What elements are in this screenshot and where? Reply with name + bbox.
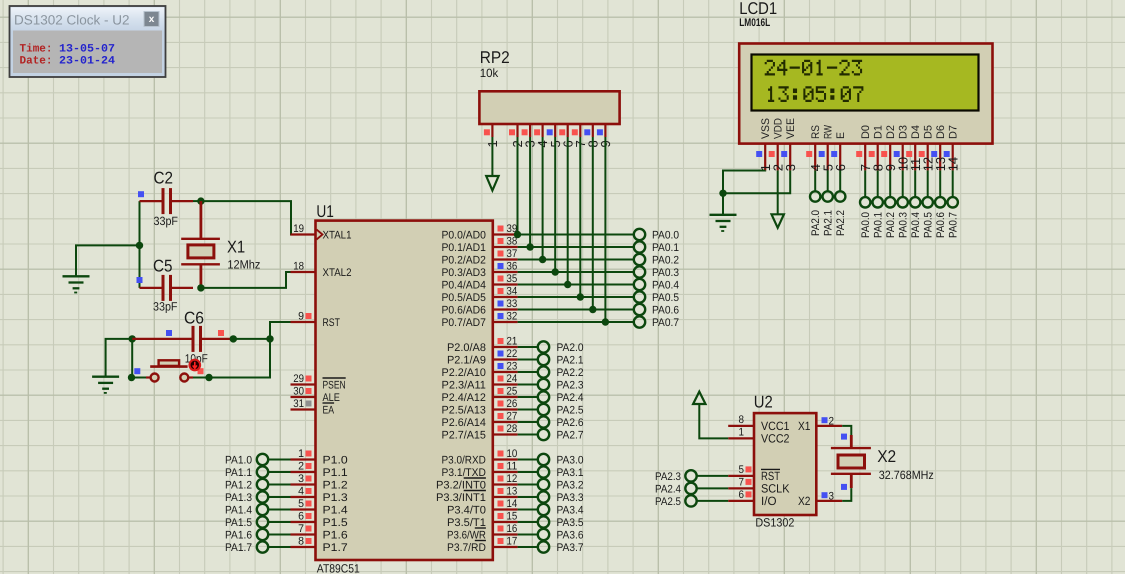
svg-text:P3.5/T1: P3.5/T1 <box>447 517 486 529</box>
svg-text:P3.4/T0: P3.4/T0 <box>447 504 486 516</box>
LCD1 pin 6 E <box>831 132 848 171</box>
svg-text:ALE: ALE <box>323 392 340 404</box>
U1 pin 31 EA <box>291 398 335 416</box>
svg-text:X1: X1 <box>798 419 811 433</box>
RP2 pin 4 <box>534 124 550 148</box>
svg-text:PA2.3: PA2.3 <box>655 471 681 483</box>
svg-text:17: 17 <box>507 536 518 548</box>
terminal PA0.4 <box>518 279 679 292</box>
U1 pin 24 P2.3/A11 <box>442 373 518 391</box>
svg-text:25: 25 <box>507 386 518 398</box>
svg-text:D4: D4 <box>910 125 922 139</box>
terminal PA0.4 (LCD data D4) <box>910 170 922 238</box>
U2 pin 6 I/O <box>728 489 776 508</box>
terminal PA3.3 <box>518 491 584 504</box>
svg-text:P1.0: P1.0 <box>323 454 348 466</box>
terminal PA2.5 <box>518 404 584 417</box>
IC U1 AT89C51 body <box>316 202 493 574</box>
terminal PA0.0 <box>518 229 679 242</box>
RP2 pin 5 <box>547 124 563 148</box>
svg-text:DS1302 Clock - U2: DS1302 Clock - U2 <box>14 13 130 28</box>
terminal PA2.2 (LCD control) <box>835 170 847 236</box>
svg-text:P2.5/A13: P2.5/A13 <box>442 404 486 416</box>
svg-text:VDD: VDD <box>773 118 785 139</box>
svg-text:PA2.2: PA2.2 <box>835 210 847 236</box>
svg-text:D3: D3 <box>898 125 910 139</box>
wire C6 right to RST node <box>230 335 274 342</box>
svg-text:P2.1/A9: P2.1/A9 <box>447 354 486 366</box>
svg-text:x: x <box>149 14 155 25</box>
svg-text:21: 21 <box>507 336 518 348</box>
svg-text:XTAL1: XTAL1 <box>323 229 352 241</box>
power terminal (down arrow) at LCD VDD <box>772 214 784 228</box>
svg-text:PA0.5: PA0.5 <box>923 212 935 238</box>
svg-text:PA0.6: PA0.6 <box>652 305 679 317</box>
terminal PA2.0 (LCD control) <box>810 170 822 236</box>
U1 pin 9 RST <box>291 311 341 329</box>
terminal PA1.4 <box>225 504 291 517</box>
svg-text:9: 9 <box>298 311 304 323</box>
LCD screen showing 24-01-23 / 13:05:07 <box>752 55 979 111</box>
terminal PA1.2 <box>225 479 291 492</box>
U1 pin 19 XTAL1 <box>291 223 352 241</box>
svg-text:P2.0/A8: P2.0/A8 <box>447 342 486 354</box>
terminal PA1.1 <box>225 466 291 479</box>
svg-text:P0.7/AD7: P0.7/AD7 <box>442 317 486 329</box>
wire left rail C2 to C5 <box>136 201 143 288</box>
ground (button row) <box>92 377 119 393</box>
terminal PA2.3 <box>655 470 728 483</box>
wire RP2 pin 6 to P0.4 net <box>564 137 571 288</box>
U1 pin 7 P1.6 <box>291 523 348 541</box>
U1 pin 23 P2.2/A10 <box>442 361 518 379</box>
svg-text:D2: D2 <box>885 125 897 139</box>
terminal PA2.3 <box>518 379 584 392</box>
svg-text:D7: D7 <box>948 125 960 139</box>
wire RP2 pin 7 to P0.5 net <box>577 137 584 301</box>
svg-text:2: 2 <box>298 461 304 473</box>
svg-text:P1.1: P1.1 <box>323 467 348 479</box>
svg-text:RS: RS <box>810 125 822 139</box>
svg-text:P2.3/A11: P2.3/A11 <box>442 379 486 391</box>
U2 pin 7 SCLK <box>728 476 789 495</box>
terminal PA2.4 <box>518 391 584 404</box>
svg-text:14: 14 <box>945 157 960 171</box>
U1 pin 17 P3.7/RD <box>447 536 518 554</box>
svg-text:PA0.7: PA0.7 <box>948 212 960 238</box>
svg-text:12: 12 <box>507 473 518 485</box>
terminal PA0.1 <box>518 241 679 254</box>
terminal PA2.7 <box>518 429 584 442</box>
U1 pin 8 P1.7 <box>291 536 348 554</box>
U1 pin 29 PSEN <box>291 373 346 391</box>
svg-text:P3.2/INT0: P3.2/INT0 <box>436 479 486 491</box>
svg-text:PA3.7: PA3.7 <box>557 542 584 554</box>
svg-text:PA3.3: PA3.3 <box>557 492 584 504</box>
wire RP2 pin 3 to P0.1 net <box>526 137 533 251</box>
svg-text:PA0.1: PA0.1 <box>873 212 885 238</box>
svg-text:P1.5: P1.5 <box>323 517 348 529</box>
svg-text:PA0.4: PA0.4 <box>652 280 679 292</box>
svg-text:P1.7: P1.7 <box>323 542 348 554</box>
wire RST node to pin 9 <box>270 322 316 339</box>
LCD1 pin 4 RS <box>806 125 823 171</box>
LCD1 pin 9 D2 <box>881 125 898 171</box>
svg-text:PA2.4: PA2.4 <box>557 392 584 404</box>
svg-text:C5: C5 <box>153 256 173 275</box>
LCD1 pin 1 VSS <box>756 118 773 171</box>
LCD1 pin 8 D1 <box>869 125 886 171</box>
terminal PA3.1 <box>518 466 584 479</box>
wire C2 to XTAL1 pin 19 <box>193 197 316 234</box>
svg-text:37: 37 <box>507 248 518 260</box>
svg-text:X2: X2 <box>877 447 896 466</box>
svg-text:PA2.3: PA2.3 <box>557 380 584 392</box>
svg-text:11: 11 <box>507 461 518 473</box>
U1 pin 6 P1.5 <box>291 511 348 529</box>
svg-text:6: 6 <box>298 511 304 523</box>
svg-text:33: 33 <box>507 298 518 310</box>
svg-text:Time:: Time: <box>20 43 53 56</box>
push button (reset) <box>134 360 203 382</box>
terminal PA0.6 (LCD data D6) <box>935 170 947 238</box>
svg-text:P2.7/A15: P2.7/A15 <box>442 429 486 441</box>
LCD1 pin 11 D4 <box>906 125 923 171</box>
svg-text:P2.2/A10: P2.2/A10 <box>442 367 486 379</box>
svg-text:6: 6 <box>833 164 848 171</box>
svg-text:P2.6/A14: P2.6/A14 <box>442 417 486 429</box>
svg-text:15: 15 <box>507 511 518 523</box>
svg-text:PA3.1: PA3.1 <box>557 467 584 479</box>
svg-text:LCD1: LCD1 <box>739 0 777 18</box>
LCD1 pin 3 VEE <box>781 118 798 171</box>
RP2 pin 2 <box>509 124 525 148</box>
U1 pin 15 P3.5/T1 <box>447 511 518 529</box>
svg-text:P0.4/AD4: P0.4/AD4 <box>442 279 486 291</box>
svg-text:5: 5 <box>739 464 745 476</box>
terminal PA2.5 <box>655 495 728 508</box>
svg-text:P0.0/AD0: P0.0/AD0 <box>442 229 486 241</box>
terminal PA3.5 <box>518 516 584 529</box>
U1 pin 28 P2.7/A15 <box>442 423 518 441</box>
svg-text:10: 10 <box>507 448 518 460</box>
svg-text:16: 16 <box>507 523 518 535</box>
wire RST node down to button right <box>193 339 270 381</box>
svg-text:P1.2: P1.2 <box>323 479 348 491</box>
U1 pin 33 P0.6/AD6 <box>442 298 518 316</box>
svg-text:P0.1/AD1: P0.1/AD1 <box>442 242 486 254</box>
terminal PA0.2 <box>518 254 679 267</box>
svg-text:2: 2 <box>829 415 835 427</box>
svg-text:13-05-07: 13-05-07 <box>59 44 115 56</box>
power terminal (up arrow) at U2 <box>693 392 705 404</box>
svg-text:C2: C2 <box>154 169 174 188</box>
svg-text:PA2.1: PA2.1 <box>557 355 584 367</box>
svg-text:35: 35 <box>507 273 518 285</box>
terminal PA0.5 (LCD data D5) <box>923 170 935 238</box>
LCD1 pin 10 D3 <box>894 125 911 171</box>
svg-text:P0.5/AD5: P0.5/AD5 <box>442 292 486 304</box>
RP2 pin 3 <box>522 124 538 148</box>
U2 pin 3 X2 <box>798 490 842 508</box>
svg-text:D5: D5 <box>923 125 935 139</box>
U1 pin 5 P1.4 <box>291 498 348 516</box>
svg-text:DS1302: DS1302 <box>755 515 794 529</box>
wire C6 row to ground riser <box>106 335 136 377</box>
U1 pin 3 P1.2 <box>291 473 348 491</box>
svg-text:13: 13 <box>507 486 518 498</box>
U2 pin 1 VCC2 <box>728 426 790 445</box>
svg-text:18: 18 <box>293 261 304 273</box>
svg-text:VSS: VSS <box>760 118 772 139</box>
U1 pin 30 ALE <box>291 386 340 404</box>
svg-text:P2.4/A12: P2.4/A12 <box>442 392 486 404</box>
terminal PA0.1 (LCD data D1) <box>873 170 885 238</box>
wire U2 X1 to crystal X2 <box>842 426 851 435</box>
terminal PA0.5 <box>518 291 679 304</box>
svg-text:D6: D6 <box>935 125 947 139</box>
terminal PA3.4 <box>518 504 584 517</box>
svg-text:32: 32 <box>507 311 518 323</box>
simulation popup window "DS1302 Clock - U2" <box>10 6 166 77</box>
svg-text:26: 26 <box>507 398 518 410</box>
crystal X2 32.768MHz <box>831 434 934 490</box>
RP2 pin 6 <box>559 124 575 148</box>
svg-text:14: 14 <box>507 498 518 510</box>
svg-text:Date:: Date: <box>20 56 53 68</box>
svg-text:P3.6/WR: P3.6/WR <box>447 529 486 541</box>
RP2 pin 7 <box>572 124 588 148</box>
U1 pin 27 P2.6/A14 <box>442 411 518 429</box>
svg-text:VCC2: VCC2 <box>761 431 790 445</box>
svg-text:P1.4: P1.4 <box>323 504 348 516</box>
svg-text:8: 8 <box>739 414 745 426</box>
wire RP2 pin 2 to P0.0 net <box>514 137 521 238</box>
svg-text:PA0.7: PA0.7 <box>652 317 679 329</box>
terminal PA0.7 <box>518 316 679 329</box>
U1 pin 11 P3.1/TXD <box>442 461 518 479</box>
wire RP2 pin 5 to P0.3 net <box>552 137 559 276</box>
LCD1 pin 13 D6 <box>931 125 948 171</box>
U1 pin 38 P0.1/AD1 <box>442 236 518 254</box>
svg-text:6: 6 <box>739 489 745 501</box>
svg-text:RST: RST <box>323 317 341 329</box>
svg-text:P3.7/RD: P3.7/RD <box>447 542 486 554</box>
wire RP2 pin 1 to terminal <box>491 137 493 176</box>
RP2 pin 8 <box>584 124 600 148</box>
svg-text:36: 36 <box>507 261 518 273</box>
svg-text:4: 4 <box>298 486 304 498</box>
U2 pin 5 RST <box>728 464 780 483</box>
terminal PA1.6 <box>225 529 291 542</box>
svg-text:7: 7 <box>298 523 304 535</box>
U1 pin 13 P3.3/INT1 <box>436 486 518 504</box>
terminal PA3.2 <box>518 479 584 492</box>
svg-text:P3.3/INT1: P3.3/INT1 <box>436 492 486 504</box>
svg-text:22: 22 <box>507 348 518 360</box>
svg-text:PA2.7: PA2.7 <box>557 430 584 442</box>
svg-text:PA0.6: PA0.6 <box>935 212 947 238</box>
terminal PA2.1 (LCD control) <box>823 170 835 236</box>
svg-text:3: 3 <box>298 473 304 485</box>
LCD1 pin 2 VDD <box>769 118 786 171</box>
RP2 pin 1 <box>484 124 500 148</box>
LCD1 pin 12 D5 <box>919 125 936 171</box>
svg-text:P1.6: P1.6 <box>323 529 348 541</box>
U2 pin 2 X1 <box>798 415 842 433</box>
svg-text:P0.3/AD3: P0.3/AD3 <box>442 267 486 279</box>
wire C5 to XTAL2 pin 18 <box>197 272 315 292</box>
LCD1 pin 14 D7 <box>944 125 961 171</box>
power terminal (down arrow) at RP2 pin 1 <box>486 176 498 191</box>
terminal PA0.7 (LCD data D7) <box>948 170 960 238</box>
terminal PA3.7 <box>518 541 584 554</box>
svg-text:PA0.4: PA0.4 <box>910 212 922 238</box>
terminal PA0.6 <box>518 304 679 317</box>
svg-text:10k: 10k <box>480 66 499 80</box>
wire junction down to button left <box>128 339 146 381</box>
svg-text:PSEN: PSEN <box>323 379 346 391</box>
svg-text:U2: U2 <box>754 393 773 412</box>
svg-text:23-01-24: 23-01-24 <box>59 56 115 68</box>
svg-text:23: 23 <box>507 361 518 373</box>
svg-text:EA: EA <box>323 404 335 416</box>
terminal PA1.3 <box>225 491 291 504</box>
U1 pin 39 P0.0/AD0 <box>442 223 518 241</box>
svg-text:X1: X1 <box>227 238 245 257</box>
svg-text:30: 30 <box>293 386 304 398</box>
svg-text:PA2.0: PA2.0 <box>557 342 584 354</box>
U1 pin 21 P2.0/A8 <box>447 336 518 354</box>
svg-text:PA1.6: PA1.6 <box>225 530 252 542</box>
svg-text:PA3.5: PA3.5 <box>557 517 584 529</box>
U1 pin 4 P1.3 <box>291 486 348 504</box>
svg-text:PA0.2: PA0.2 <box>885 212 897 238</box>
wire RP2 pin 4 to P0.2 net <box>539 137 546 263</box>
svg-text:PA1.1: PA1.1 <box>225 467 252 479</box>
wire RP2 pin 9 to P0.7 net <box>602 137 609 326</box>
wire LCD VSS to ground <box>719 170 765 214</box>
svg-text:P1.3: P1.3 <box>323 492 348 504</box>
svg-text:PA0.3: PA0.3 <box>898 212 910 238</box>
terminal PA2.6 <box>518 416 584 429</box>
terminal PA2.2 <box>518 366 584 379</box>
U1 pin 25 P2.4/A12 <box>442 386 518 404</box>
svg-text:X2: X2 <box>798 494 811 508</box>
LCD LCD1 LM016L body <box>739 0 992 144</box>
svg-text:33pF: 33pF <box>154 214 179 228</box>
terminal PA1.5 <box>225 516 291 529</box>
svg-text:PA0.0: PA0.0 <box>860 212 872 238</box>
terminal PA0.2 (LCD data D2) <box>885 170 897 238</box>
svg-text:AT89C51: AT89C51 <box>317 561 360 574</box>
svg-text:PA1.7: PA1.7 <box>225 542 252 554</box>
svg-text:1: 1 <box>298 448 304 460</box>
svg-text:27: 27 <box>507 411 518 423</box>
U1 pin 16 P3.6/WR <box>447 523 518 541</box>
svg-text:PA0.3: PA0.3 <box>652 267 679 279</box>
svg-text:U1: U1 <box>316 202 334 221</box>
U1 pin 18 XTAL2 <box>291 261 352 279</box>
svg-text:PA3.2: PA3.2 <box>557 480 584 492</box>
svg-text:PA3.4: PA3.4 <box>557 505 584 517</box>
capacitor C2 33pF <box>138 169 193 228</box>
svg-text:PA2.5: PA2.5 <box>655 496 681 508</box>
terminal PA0.3 <box>518 266 679 279</box>
terminal PA1.7 <box>225 541 291 554</box>
svg-text:3: 3 <box>829 490 835 502</box>
terminal PA2.0 <box>518 341 584 354</box>
svg-text:P0.2/AD2: P0.2/AD2 <box>442 254 486 266</box>
svg-text:32.768MHz: 32.768MHz <box>879 468 934 482</box>
terminal PA0.3 (LCD data D3) <box>898 170 910 238</box>
wire LCD VEE to ground net <box>723 170 790 193</box>
svg-text:28: 28 <box>507 423 518 435</box>
U1 pin 22 P2.1/A9 <box>447 348 518 366</box>
svg-text:P3.1/TXD: P3.1/TXD <box>442 467 486 479</box>
terminal PA0.0 (LCD data D0) <box>860 170 872 238</box>
wire RP2 pin 8 to P0.6 net <box>589 137 596 313</box>
svg-text:LM016L: LM016L <box>739 17 770 29</box>
U1 pin 37 P0.2/AD2 <box>442 248 518 266</box>
terminal PA3.0 <box>518 454 584 467</box>
svg-text:PA3.0: PA3.0 <box>557 455 584 467</box>
svg-text:P3.0/RXD: P3.0/RXD <box>442 454 486 466</box>
resistor pack RP2 10k body <box>479 48 619 124</box>
svg-text:P0.6/AD6: P0.6/AD6 <box>442 304 486 316</box>
U1 pin 12 P3.2/INT0 <box>436 473 518 491</box>
svg-text:34: 34 <box>507 286 518 298</box>
svg-text:I/O: I/O <box>761 494 777 508</box>
U1 pin 32 P0.7/AD7 <box>442 311 518 329</box>
svg-text:PA2.2: PA2.2 <box>557 367 584 379</box>
wire crystal X2 to U2 X2 pin <box>842 488 851 501</box>
svg-text:RW: RW <box>823 125 835 139</box>
ground (left rail) <box>63 276 90 292</box>
terminal PA2.4 <box>655 483 728 496</box>
svg-text:PA2.5: PA2.5 <box>557 405 584 417</box>
svg-text:D0: D0 <box>860 125 872 139</box>
svg-text:PA0.2: PA0.2 <box>652 255 679 267</box>
crystal X1 12Mhz <box>181 201 260 288</box>
svg-text:PA2.6: PA2.6 <box>557 417 584 429</box>
svg-text:PA1.0: PA1.0 <box>225 455 252 467</box>
svg-text:12Mhz: 12Mhz <box>227 258 260 272</box>
U1 pin 35 P0.4/AD4 <box>442 273 518 291</box>
svg-text:PA2.4: PA2.4 <box>655 483 681 495</box>
svg-text:19: 19 <box>293 223 304 235</box>
wire rail to ground <box>76 245 140 276</box>
capacitor C5 33pF <box>137 256 194 313</box>
capacitor C6 10pF <box>132 308 233 365</box>
svg-text:PA0.0: PA0.0 <box>652 230 679 242</box>
RP2 pin 9 <box>597 124 613 148</box>
ground (LCD) <box>710 215 737 231</box>
terminal PA2.1 <box>518 354 584 367</box>
terminal PA1.0 <box>225 454 291 467</box>
U1 pin 14 P3.4/T0 <box>447 498 518 516</box>
svg-text:PA1.5: PA1.5 <box>225 517 252 529</box>
wire LCD VDD to power terminal <box>777 170 779 214</box>
svg-text:E: E <box>835 132 847 139</box>
svg-text:8: 8 <box>298 536 304 548</box>
svg-text:1: 1 <box>739 426 745 438</box>
LCD1 pin 7 D0 <box>856 125 873 171</box>
svg-text:PA0.5: PA0.5 <box>652 292 679 304</box>
svg-text:PA2.1: PA2.1 <box>823 210 835 236</box>
svg-text:D1: D1 <box>873 125 885 139</box>
svg-text:XTAL2: XTAL2 <box>323 267 352 279</box>
